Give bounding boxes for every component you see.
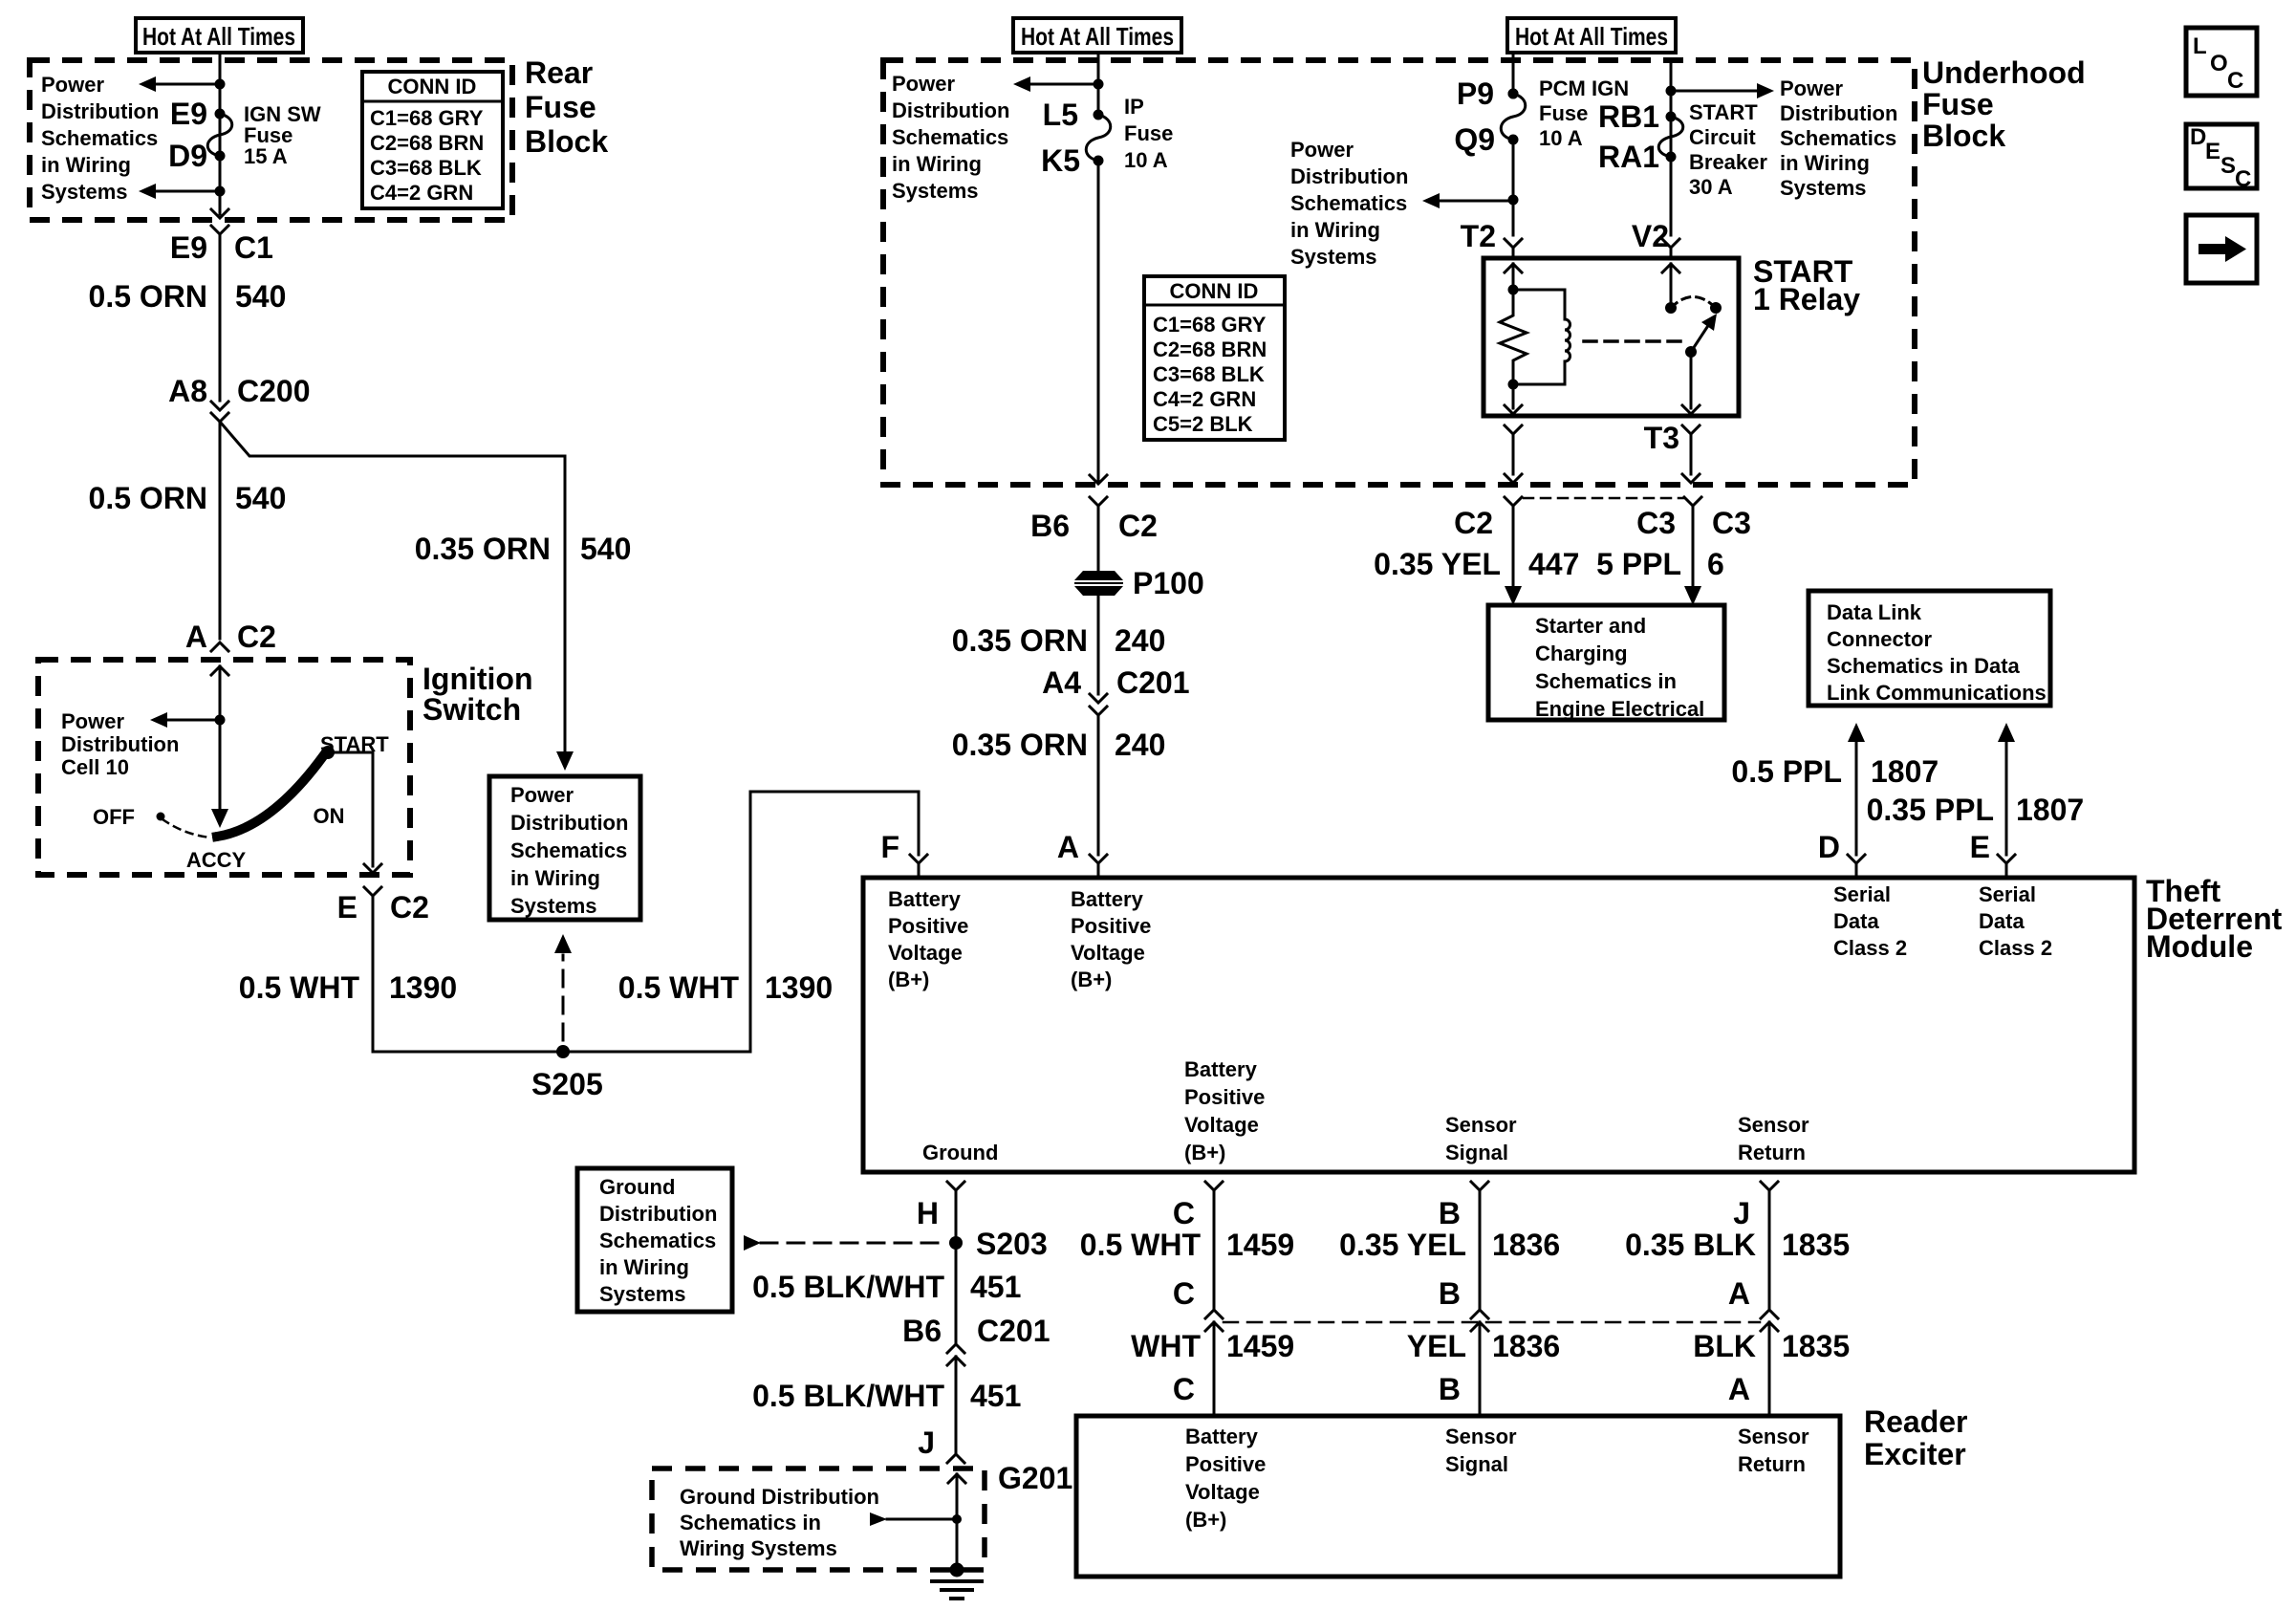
svg-text:C1: C1 <box>234 230 273 265</box>
svg-text:in Wiring: in Wiring <box>1290 218 1380 242</box>
svg-text:Class 2: Class 2 <box>1833 936 1907 960</box>
svg-text:1459: 1459 <box>1226 1329 1294 1363</box>
svg-text:Power: Power <box>892 72 955 96</box>
svg-text:Ignition: Ignition <box>422 662 533 696</box>
svg-text:Power: Power <box>61 709 124 733</box>
svg-text:H: H <box>917 1196 939 1230</box>
svg-text:RA1: RA1 <box>1598 140 1659 174</box>
svg-text:0.5 WHT: 0.5 WHT <box>618 970 740 1005</box>
svg-text:Signal: Signal <box>1445 1141 1508 1164</box>
svg-text:Positive: Positive <box>888 914 968 938</box>
svg-text:Systems: Systems <box>1780 176 1867 200</box>
svg-text:Voltage: Voltage <box>1184 1113 1259 1137</box>
svg-text:C4=2 GRN: C4=2 GRN <box>370 181 473 205</box>
svg-text:Class 2: Class 2 <box>1979 936 2052 960</box>
svg-text:O: O <box>2210 51 2228 76</box>
svg-text:C2: C2 <box>237 620 276 654</box>
svg-text:0.35 BLK: 0.35 BLK <box>1625 1228 1756 1262</box>
svg-text:B: B <box>1439 1196 1461 1230</box>
svg-text:L: L <box>2193 33 2207 59</box>
svg-text:Distribution: Distribution <box>41 99 159 123</box>
svg-text:Fuse: Fuse <box>1922 87 1994 121</box>
svg-text:1835: 1835 <box>1782 1329 1850 1363</box>
svg-text:C3: C3 <box>1636 506 1676 540</box>
svg-text:Power: Power <box>41 73 104 97</box>
svg-text:Systems: Systems <box>510 894 597 918</box>
svg-text:Schematics: Schematics <box>599 1229 716 1252</box>
svg-text:0.5 WHT: 0.5 WHT <box>239 970 360 1005</box>
svg-text:ON: ON <box>314 804 345 828</box>
svg-text:Block: Block <box>525 124 608 159</box>
svg-text:1807: 1807 <box>1871 754 1939 789</box>
svg-text:1459: 1459 <box>1226 1228 1294 1262</box>
svg-text:A: A <box>1057 830 1079 864</box>
svg-text:C201: C201 <box>977 1314 1051 1348</box>
svg-text:Distribution: Distribution <box>1290 164 1408 188</box>
svg-text:E: E <box>337 890 357 925</box>
svg-text:E: E <box>1970 830 1990 864</box>
svg-text:in Wiring: in Wiring <box>599 1255 689 1279</box>
svg-text:6: 6 <box>1707 547 1724 581</box>
svg-text:0.5 WHT: 0.5 WHT <box>1080 1228 1202 1262</box>
svg-text:Block: Block <box>1922 119 2005 153</box>
svg-text:Serial: Serial <box>1979 882 2036 906</box>
svg-text:C200: C200 <box>237 374 311 408</box>
svg-text:0.35 ORN: 0.35 ORN <box>415 532 551 566</box>
svg-text:Engine Electrical: Engine Electrical <box>1535 697 1704 721</box>
svg-text:C: C <box>2235 166 2251 192</box>
svg-text:Positive: Positive <box>1071 914 1151 938</box>
svg-text:Schematics: Schematics <box>41 126 158 150</box>
svg-text:Ground: Ground <box>599 1175 675 1199</box>
svg-text:0.35 ORN: 0.35 ORN <box>952 728 1088 762</box>
svg-text:Return: Return <box>1738 1141 1806 1164</box>
svg-text:Distribution: Distribution <box>61 732 179 756</box>
svg-text:CONN ID: CONN ID <box>388 75 477 98</box>
svg-text:D: D <box>2190 124 2206 150</box>
svg-text:V2: V2 <box>1632 219 1669 253</box>
svg-text:(B+): (B+) <box>1071 968 1112 991</box>
svg-text:RB1: RB1 <box>1598 99 1659 134</box>
svg-text:Data: Data <box>1979 909 2025 933</box>
svg-text:C5=2 BLK: C5=2 BLK <box>1153 412 1253 436</box>
svg-text:Sensor: Sensor <box>1445 1113 1517 1137</box>
svg-text:Power: Power <box>1780 76 1843 100</box>
svg-text:E9: E9 <box>170 230 207 265</box>
svg-text:D9: D9 <box>168 139 207 173</box>
svg-text:Voltage: Voltage <box>1071 941 1145 965</box>
svg-text:A: A <box>1728 1276 1750 1311</box>
svg-text:J: J <box>1733 1196 1750 1230</box>
svg-text:Charging: Charging <box>1535 642 1628 665</box>
svg-text:5 PPL: 5 PPL <box>1596 547 1681 581</box>
svg-text:0.35 ORN: 0.35 ORN <box>952 623 1088 658</box>
svg-text:Q9: Q9 <box>1454 122 1495 157</box>
svg-text:in Wiring: in Wiring <box>1780 151 1870 175</box>
svg-text:Sensor: Sensor <box>1445 1425 1517 1448</box>
svg-text:Voltage: Voltage <box>1185 1480 1260 1504</box>
svg-text:(B+): (B+) <box>888 968 929 991</box>
svg-text:C1=68 GRY: C1=68 GRY <box>1153 313 1267 337</box>
svg-text:Positive: Positive <box>1185 1452 1266 1476</box>
svg-text:T3: T3 <box>1644 421 1679 455</box>
svg-text:P9: P9 <box>1457 76 1494 111</box>
svg-text:P100: P100 <box>1133 566 1204 600</box>
svg-text:1390: 1390 <box>389 970 457 1005</box>
svg-text:A8: A8 <box>168 374 207 408</box>
svg-text:B: B <box>1439 1372 1461 1406</box>
svg-text:Fuse: Fuse <box>1124 121 1173 145</box>
svg-text:0.5 BLK/WHT: 0.5 BLK/WHT <box>752 1270 944 1304</box>
svg-text:Serial: Serial <box>1833 882 1891 906</box>
svg-text:L5: L5 <box>1043 98 1078 132</box>
svg-text:240: 240 <box>1115 728 1165 762</box>
svg-text:Switch: Switch <box>422 692 521 727</box>
svg-text:540: 540 <box>580 532 631 566</box>
svg-text:ACCY: ACCY <box>186 848 247 872</box>
svg-text:Schematics: Schematics <box>1780 126 1896 150</box>
svg-text:Starter and: Starter and <box>1535 614 1646 638</box>
svg-text:Ground Distribution: Ground Distribution <box>680 1485 879 1509</box>
svg-text:C1=68 GRY: C1=68 GRY <box>370 106 484 130</box>
svg-text:C201: C201 <box>1116 665 1190 700</box>
svg-text:Sensor: Sensor <box>1738 1113 1809 1137</box>
svg-text:F: F <box>880 830 899 864</box>
svg-text:START: START <box>1689 100 1758 124</box>
svg-text:Reader: Reader <box>1864 1404 1968 1439</box>
svg-text:in Wiring: in Wiring <box>892 152 982 176</box>
svg-text:30 A: 30 A <box>1689 175 1733 199</box>
svg-text:C2: C2 <box>1118 509 1158 543</box>
svg-text:Schematics: Schematics <box>892 125 1008 149</box>
svg-text:Signal: Signal <box>1445 1452 1508 1476</box>
svg-text:Schematics in: Schematics in <box>680 1511 821 1534</box>
svg-text:Systems: Systems <box>41 180 128 204</box>
svg-text:S: S <box>2220 153 2236 179</box>
svg-text:10 A: 10 A <box>1539 126 1583 150</box>
svg-text:E9: E9 <box>170 97 207 131</box>
svg-text:Module: Module <box>2146 929 2253 964</box>
svg-text:Data: Data <box>1833 909 1879 933</box>
svg-text:Distribution: Distribution <box>599 1202 717 1226</box>
svg-text:A: A <box>1728 1372 1750 1406</box>
svg-text:B6: B6 <box>1030 509 1070 543</box>
svg-text:C3: C3 <box>1712 506 1751 540</box>
svg-text:Circuit: Circuit <box>1689 125 1756 149</box>
svg-text:1 Relay: 1 Relay <box>1753 282 1860 316</box>
svg-text:1835: 1835 <box>1782 1228 1850 1262</box>
svg-text:Link Communications: Link Communications <box>1827 681 2047 705</box>
svg-text:C: C <box>1173 1196 1195 1230</box>
svg-text:Schematics in: Schematics in <box>1535 669 1677 693</box>
svg-text:Distribution: Distribution <box>510 811 628 835</box>
svg-text:C2: C2 <box>390 890 429 925</box>
svg-text:C2: C2 <box>1454 506 1493 540</box>
svg-text:Systems: Systems <box>1290 245 1377 269</box>
svg-text:C2=68 BRN: C2=68 BRN <box>370 131 484 155</box>
svg-text:J: J <box>918 1425 935 1460</box>
svg-text:451: 451 <box>970 1270 1021 1304</box>
svg-text:E: E <box>2205 139 2220 164</box>
svg-text:C4=2 GRN: C4=2 GRN <box>1153 387 1256 411</box>
svg-text:CONN ID: CONN ID <box>1170 279 1259 303</box>
svg-text:1836: 1836 <box>1492 1329 1560 1363</box>
svg-text:Data Link: Data Link <box>1827 600 1922 624</box>
svg-text:Fuse: Fuse <box>525 90 596 124</box>
svg-text:Distribution: Distribution <box>1780 101 1897 125</box>
svg-text:Power: Power <box>510 783 574 807</box>
svg-text:Exciter: Exciter <box>1864 1437 1966 1471</box>
svg-text:Voltage: Voltage <box>888 941 963 965</box>
svg-text:S205: S205 <box>531 1067 603 1101</box>
svg-text:C: C <box>2227 68 2243 94</box>
svg-text:OFF: OFF <box>93 805 135 829</box>
svg-text:B: B <box>1439 1276 1461 1311</box>
svg-text:IP: IP <box>1124 95 1144 119</box>
svg-text:C: C <box>1173 1276 1195 1311</box>
svg-text:A4: A4 <box>1042 665 1081 700</box>
svg-text:Battery: Battery <box>1184 1057 1258 1081</box>
svg-text:Systems: Systems <box>892 179 979 203</box>
svg-text:540: 540 <box>235 279 286 314</box>
svg-text:BLK: BLK <box>1693 1329 1756 1363</box>
svg-text:451: 451 <box>970 1379 1021 1413</box>
svg-text:WHT: WHT <box>1131 1329 1201 1363</box>
svg-text:10 A: 10 A <box>1124 148 1168 172</box>
svg-text:D: D <box>1818 830 1840 864</box>
svg-text:C3=68 BLK: C3=68 BLK <box>370 156 482 180</box>
svg-text:Ground: Ground <box>922 1141 998 1164</box>
svg-text:1836: 1836 <box>1492 1228 1560 1262</box>
svg-text:Battery: Battery <box>1071 887 1144 911</box>
svg-text:Positive: Positive <box>1184 1085 1265 1109</box>
svg-text:PCM IGN: PCM IGN <box>1539 76 1629 100</box>
svg-text:Schematics: Schematics <box>1290 191 1407 215</box>
svg-text:A: A <box>185 620 207 654</box>
svg-text:Schematics in Data: Schematics in Data <box>1827 654 2021 678</box>
svg-text:447: 447 <box>1528 547 1579 581</box>
svg-text:C: C <box>1173 1372 1195 1406</box>
svg-text:0.5 PPL: 0.5 PPL <box>1731 754 1842 789</box>
svg-text:1390: 1390 <box>765 970 833 1005</box>
svg-text:in Wiring: in Wiring <box>41 153 131 177</box>
svg-text:(B+): (B+) <box>1184 1141 1225 1164</box>
svg-text:Schematics: Schematics <box>510 838 627 862</box>
svg-text:Battery: Battery <box>888 887 962 911</box>
svg-text:Distribution: Distribution <box>892 98 1009 122</box>
svg-text:0.35 YEL: 0.35 YEL <box>1339 1228 1466 1262</box>
svg-text:Fuse: Fuse <box>1539 101 1588 125</box>
svg-text:Wiring Systems: Wiring Systems <box>680 1536 837 1560</box>
svg-text:1807: 1807 <box>2016 793 2084 827</box>
svg-text:540: 540 <box>235 481 286 515</box>
svg-text:0.5 ORN: 0.5 ORN <box>89 481 207 515</box>
svg-text:Hot At All Times: Hot At All Times <box>1021 22 1174 51</box>
svg-text:Return: Return <box>1738 1452 1806 1476</box>
svg-text:Battery: Battery <box>1185 1425 1259 1448</box>
svg-text:0.5 BLK/WHT: 0.5 BLK/WHT <box>752 1379 944 1413</box>
svg-text:C2=68 BRN: C2=68 BRN <box>1153 337 1267 361</box>
svg-text:in Wiring: in Wiring <box>510 866 600 890</box>
svg-text:Rear: Rear <box>525 55 593 90</box>
svg-text:K5: K5 <box>1041 143 1080 178</box>
svg-text:S203: S203 <box>976 1227 1048 1261</box>
svg-text:Systems: Systems <box>599 1282 686 1306</box>
svg-text:B6: B6 <box>902 1314 942 1348</box>
svg-text:Underhood: Underhood <box>1922 55 2086 90</box>
svg-text:Hot At All Times: Hot At All Times <box>142 22 295 51</box>
svg-text:YEL: YEL <box>1407 1329 1466 1363</box>
svg-text:(B+): (B+) <box>1185 1508 1226 1532</box>
svg-text:0.35 PPL: 0.35 PPL <box>1867 793 1994 827</box>
svg-text:0.5 ORN: 0.5 ORN <box>89 279 207 314</box>
svg-text:Connector: Connector <box>1827 627 1932 651</box>
svg-text:Cell 10: Cell 10 <box>61 755 129 779</box>
svg-text:Hot At All Times: Hot At All Times <box>1515 22 1668 51</box>
svg-text:240: 240 <box>1115 623 1165 658</box>
svg-text:Sensor: Sensor <box>1738 1425 1809 1448</box>
svg-text:T2: T2 <box>1461 219 1496 253</box>
svg-text:15 A: 15 A <box>244 144 288 168</box>
svg-text:Breaker: Breaker <box>1689 150 1767 174</box>
svg-text:Power: Power <box>1290 138 1354 162</box>
svg-text:C3=68 BLK: C3=68 BLK <box>1153 362 1265 386</box>
svg-text:G201: G201 <box>998 1461 1072 1495</box>
svg-text:0.35 YEL: 0.35 YEL <box>1374 547 1501 581</box>
